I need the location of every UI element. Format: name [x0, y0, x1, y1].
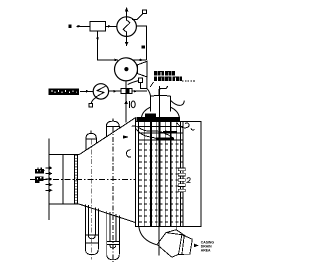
HX1 to fan link — [125, 36, 128, 46]
feed line to box — [77, 25, 91, 28]
shell left inner wall — [138, 121, 140, 226]
cone bottom edge — [79, 204, 135, 223]
lance centerline 2 — [112, 127, 114, 262]
fan F1 — [115, 58, 147, 81]
flow curl left — [126, 150, 131, 158]
shell left edge upper stub — [135, 118, 137, 122]
dashed tube rows — [139, 144, 182, 222]
flow squiggle 1 — [132, 126, 174, 138]
label B — [35, 177, 43, 183]
flange with bolts — [75, 155, 78, 205]
label square 30 — [68, 25, 71, 28]
top label underline — [182, 80, 196, 82]
finger stubs — [178, 168, 185, 192]
U-tube T1 — [85, 204, 98, 254]
steam drum — [150, 95, 170, 111]
flow squiggle 2 — [136, 129, 160, 141]
drum shoulders — [142, 107, 151, 117]
cooler HX2 — [93, 84, 108, 99]
U-tube T2 — [107, 211, 120, 260]
label square 16 — [141, 45, 144, 48]
leader cooler to square 18 — [89, 97, 96, 107]
burner box — [49, 155, 79, 205]
valve V1 — [121, 89, 132, 94]
centerline — [30, 179, 136, 181]
top label leader — [150, 82, 153, 87]
tube sheet black bar — [137, 113, 180, 121]
hopper left curve — [139, 227, 157, 245]
cone top edge — [79, 118, 135, 155]
drum right leader — [171, 101, 185, 106]
outlet arrow — [194, 244, 199, 248]
label 10 — [130, 101, 136, 108]
label F — [35, 167, 44, 173]
label square 12 with leader — [128, 78, 147, 89]
upper solid rows — [139, 126, 183, 139]
top label line 2 — [154, 76, 182, 81]
flow curl right — [177, 123, 189, 128]
arrow in cone — [123, 135, 129, 139]
svg-text:AREA: AREA — [201, 249, 211, 253]
control box B1 — [90, 21, 105, 30]
burner lance L2 cap — [106, 119, 119, 137]
label 2 — [187, 178, 191, 183]
drum centerline — [159, 86, 161, 121]
leader to square 14 — [132, 10, 147, 20]
vessel bottom centerline — [158, 226, 160, 255]
thick row segment a — [163, 131, 177, 133]
fuel riser to furnace — [124, 94, 128, 123]
HX1 outlet pipe — [136, 26, 146, 60]
fan suction drop — [125, 81, 127, 89]
exhaust stack arrow — [125, 7, 129, 17]
fuel gas label (solid) — [49, 88, 79, 95]
flow curl right tail — [191, 128, 195, 130]
box drop line to fan — [96, 31, 118, 62]
burner front wall — [48, 139, 50, 221]
flow arrows at wall — [45, 166, 52, 192]
lance centerline 1 — [91, 140, 93, 260]
tube verticals thick — [151, 121, 171, 226]
arrow label to cooler — [80, 90, 93, 93]
fan outlet duct down — [147, 77, 151, 96]
line cooler to valve — [109, 90, 121, 93]
burner lance L1 cap — [86, 131, 97, 151]
line box to HX1 — [105, 25, 117, 28]
outlet chute — [157, 227, 192, 258]
tube verticals thin — [144, 121, 183, 226]
heat exchanger HX1 — [117, 17, 137, 37]
top label line 1 — [154, 71, 175, 75]
drum vent pipe — [159, 86, 168, 96]
thick row segment b — [156, 138, 174, 140]
vessel shell — [136, 121, 201, 226]
valve outlet line — [132, 90, 147, 92]
fan outlet cone — [137, 61, 147, 77]
outlet label — [201, 241, 215, 253]
